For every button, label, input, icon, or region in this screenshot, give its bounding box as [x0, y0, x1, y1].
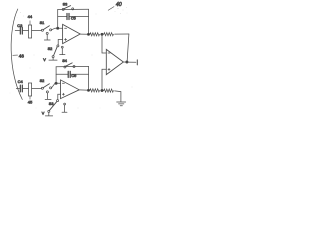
leader 44 [29, 21, 31, 25]
svg-text:S3: S3 [49, 102, 54, 106]
svg-text:46: 46 [19, 54, 25, 59]
terminal Vr bar [49, 58, 57, 60]
wire 45 to switch S4 [32, 87, 42, 89]
wire R1 to node [101, 33, 104, 35]
terminal stub right of S5 [62, 103, 67, 112]
wire feedback left vertical B [55, 67, 57, 83]
wire feedback rail (switch branch) [58, 8, 89, 10]
svg-text:S4: S4 [62, 59, 67, 63]
capacitor C5 (feedback) [67, 13, 69, 19]
svg-text:C5: C5 [71, 17, 76, 21]
wire output [123, 61, 135, 63]
svg-text:V: V [42, 112, 45, 116]
leader 40 [108, 7, 114, 11]
resistor R4 (zigzag to ground) [104, 89, 114, 92]
terminal Vr bar B [45, 113, 52, 116]
wire R4 to ground corner [115, 91, 121, 102]
svg-text:V: V [43, 58, 46, 62]
svg-text:S1: S1 [40, 21, 45, 25]
node comparator inverting [101, 33, 103, 35]
op-amp U1 [63, 24, 81, 43]
leader 45 [29, 96, 31, 99]
capacitor C6 (feedback B) [68, 71, 70, 77]
resistor 45 (box) [29, 83, 32, 96]
terminal stub right of S2 [60, 46, 65, 54]
wire feedback rail (capacitor branch) [58, 15, 89, 17]
leader 46 [13, 54, 18, 56]
svg-text:C4: C4 [18, 79, 24, 84]
wire U2 output [79, 89, 90, 91]
wire R2 to corner [115, 33, 129, 35]
switch S6 (reset, feedback B) [64, 63, 75, 68]
terminal stub below S4 [45, 91, 51, 100]
wire C4 to resistor 45 [23, 87, 29, 89]
wire feedback right vertical [88, 9, 90, 34]
op-amp U3 [106, 49, 123, 74]
wire feedback down to output [127, 34, 129, 62]
op-amp U2 [61, 80, 80, 99]
wire C3 to resistor 44 [23, 29, 29, 31]
resistor R2 (feedback zigzag) [104, 33, 114, 36]
wire feedback left vertical [57, 10, 59, 29]
resistor 44 (box) [29, 25, 32, 38]
output terminal tick [136, 60, 138, 65]
node output [126, 61, 128, 63]
wire R3 to node [101, 90, 104, 92]
node U2 output/feedback [87, 89, 89, 91]
switch S1 [41, 26, 51, 32]
node (inverting input) [57, 27, 59, 29]
svg-text:S3: S3 [63, 2, 68, 6]
scan speckle [10, 7, 133, 108]
wire feedback rail B (switch branch) [56, 65, 88, 67]
wire inverting vertical [102, 34, 106, 53]
wire noninverting vertical [102, 69, 106, 90]
wire sensor to C3 [15, 29, 19, 31]
wire S1 to inverting input [52, 28, 63, 30]
node comparator noninverting [101, 89, 103, 91]
capacitor C3 [20, 27, 22, 34]
wire feedback right vertical B [88, 66, 90, 90]
svg-text:S2: S2 [48, 47, 53, 51]
wire S4 to inverting input [52, 83, 61, 88]
sensor electrode arc 46 [11, 9, 22, 100]
switch S3 (reset, feedback) [62, 6, 73, 11]
svg-text:C6: C6 [71, 74, 76, 78]
capacitor C4 [20, 85, 22, 92]
resistor R3 (zigzag) [90, 89, 100, 92]
node U1 output/feedback [87, 33, 89, 35]
wire sensor to C4 [16, 87, 19, 89]
switch S2 (noninverting) [52, 45, 59, 58]
switch S5 (noninverting B) [48, 100, 59, 113]
resistor R1 (zigzag) [90, 33, 100, 36]
ground [117, 102, 126, 106]
wire noninverting input down [58, 40, 62, 45]
node (inverting input B) [55, 82, 57, 84]
wire U1 output [80, 33, 90, 35]
svg-text:40: 40 [116, 2, 122, 8]
terminal stub below S1 [44, 32, 50, 40]
svg-text:C3: C3 [17, 23, 23, 28]
wire feedback rail B (capacitor branch) [56, 73, 88, 75]
svg-text:S2: S2 [40, 79, 45, 83]
wire noninverting input down B [58, 94, 61, 99]
svg-text:45: 45 [28, 100, 33, 105]
svg-text:44: 44 [28, 14, 33, 19]
switch S4 [41, 84, 51, 90]
wire 44 to switch S1 [32, 29, 42, 31]
